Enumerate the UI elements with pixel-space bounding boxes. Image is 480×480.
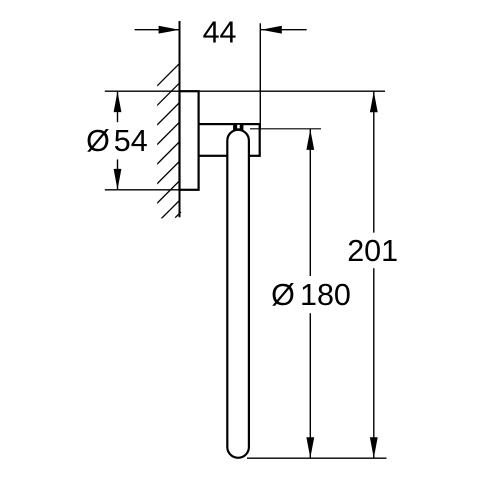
svg-text:44: 44: [203, 15, 237, 49]
svg-text:Ø: Ø: [86, 124, 110, 158]
svg-text:180: 180: [300, 278, 351, 312]
svg-text:54: 54: [114, 124, 148, 158]
svg-text:Ø: Ø: [271, 278, 295, 312]
svg-text:201: 201: [347, 234, 398, 268]
